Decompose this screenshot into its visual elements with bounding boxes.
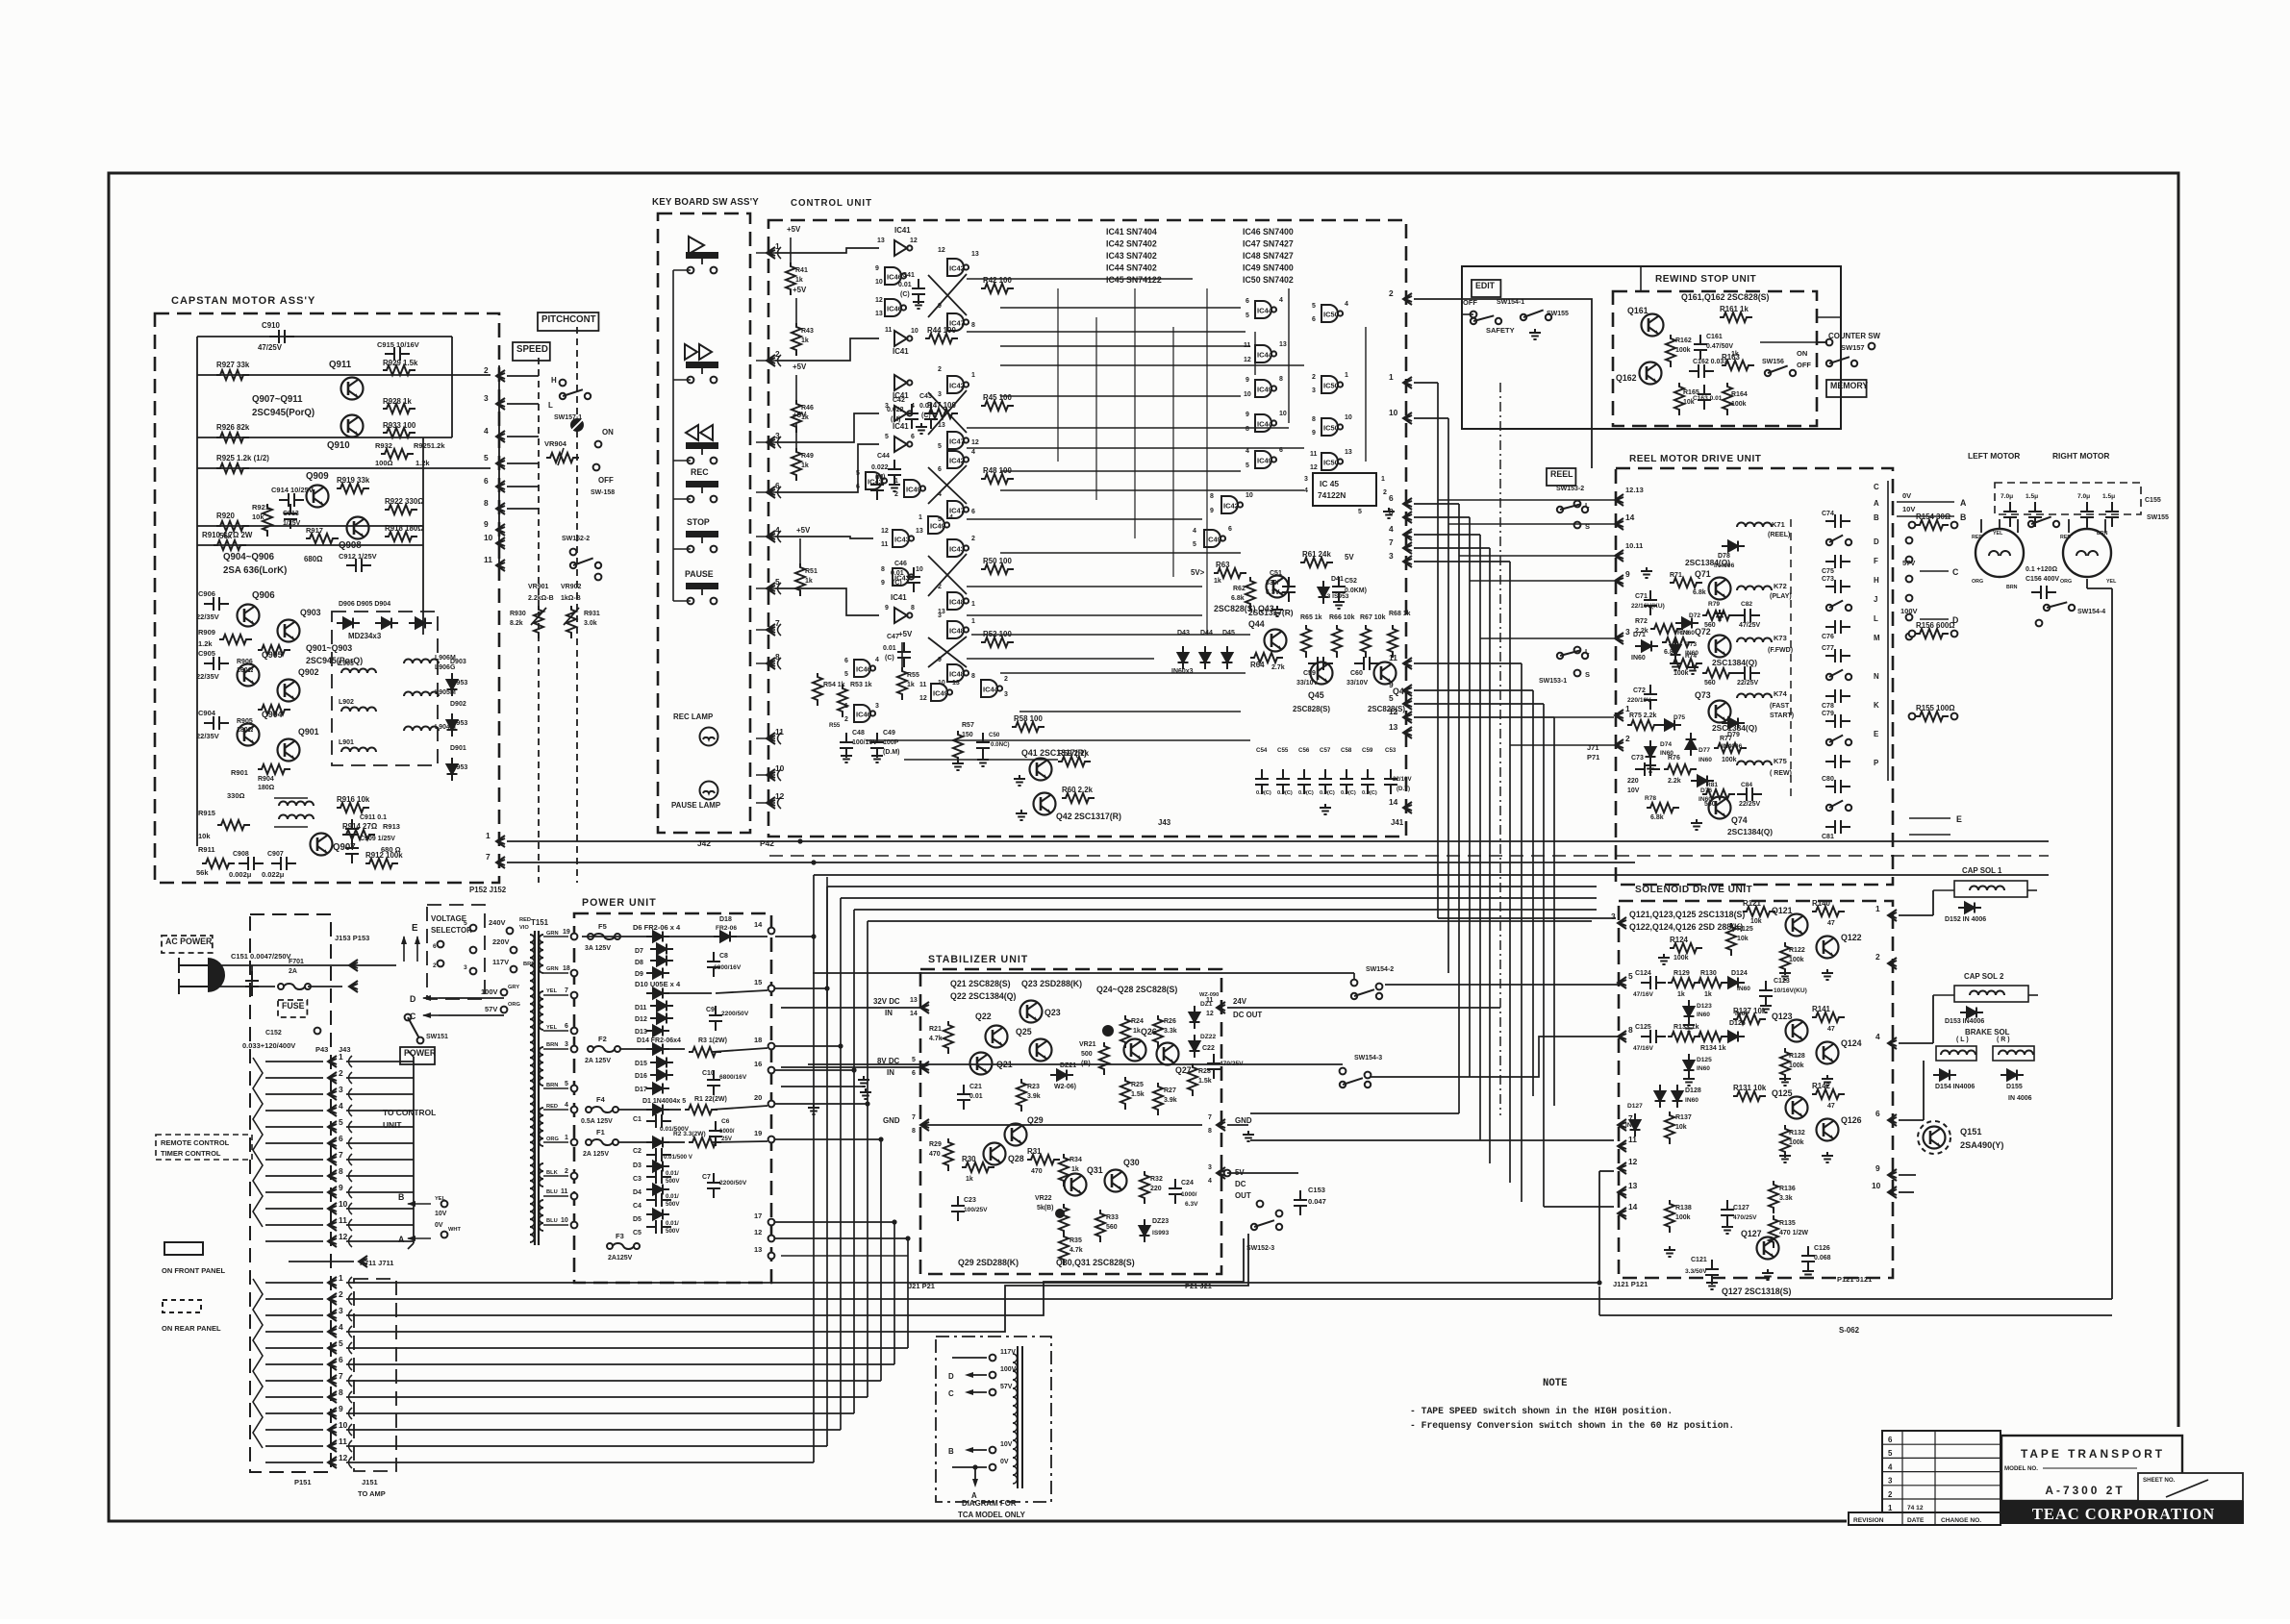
svg-text:MODEL NO.: MODEL NO. bbox=[2004, 1465, 2038, 1472]
transistor Q46 bbox=[1374, 662, 1397, 685]
capacitor C51 bbox=[1282, 577, 1296, 602]
svg-text:T151: T151 bbox=[531, 918, 549, 927]
svg-text:IN60: IN60 bbox=[1699, 757, 1712, 763]
resistor R58 bbox=[1012, 722, 1044, 732]
svg-text:C: C bbox=[948, 1389, 954, 1398]
svg-text:R51: R51 bbox=[805, 568, 818, 575]
svg-text:6.8k: 6.8k bbox=[1650, 814, 1664, 821]
capacitor C909 bbox=[345, 838, 359, 863]
svg-text:2: 2 bbox=[1888, 1490, 1893, 1499]
svg-text:100k: 100k bbox=[1673, 670, 1689, 677]
svg-text:NOTE: NOTE bbox=[1543, 1378, 1567, 1389]
svg-text:R142: R142 bbox=[1812, 1082, 1830, 1090]
svg-text:6: 6 bbox=[433, 943, 437, 950]
svg-text:R140: R140 bbox=[1812, 899, 1830, 908]
svg-text:4: 4 bbox=[1875, 1032, 1880, 1041]
svg-text:R133 1k: R133 1k bbox=[1673, 1024, 1699, 1031]
resistor R79 C82 bbox=[1702, 611, 1735, 620]
svg-text:OUT: OUT bbox=[1235, 1191, 1251, 1200]
capacitor C9 bbox=[709, 1006, 722, 1031]
svg-text:D155: D155 bbox=[2006, 1084, 2023, 1090]
coil L902 bbox=[341, 708, 376, 712]
svg-text:R59 2.2k: R59 2.2k bbox=[1058, 749, 1090, 758]
svg-text:IC50: IC50 bbox=[1323, 311, 1339, 319]
svg-text:IC48: IC48 bbox=[949, 627, 965, 636]
svg-text:P71: P71 bbox=[1587, 753, 1599, 762]
resistor R925 bbox=[216, 463, 249, 473]
svg-text:10.11: 10.11 bbox=[1625, 541, 1643, 550]
svg-text:C50: C50 bbox=[989, 732, 1000, 738]
svg-text:47: 47 bbox=[1827, 1026, 1835, 1033]
reel pins to bundle bbox=[1438, 499, 1614, 501]
svg-text:1.5μ: 1.5μ bbox=[2102, 493, 2115, 500]
svg-text:0.022μ: 0.022μ bbox=[262, 870, 285, 879]
svg-text:C48: C48 bbox=[852, 730, 865, 737]
svg-text:C911 0.1: C911 0.1 bbox=[360, 814, 387, 821]
resistor R122 bbox=[1780, 942, 1790, 975]
svg-text:R55: R55 bbox=[829, 722, 841, 729]
svg-text:5: 5 bbox=[1246, 312, 1249, 319]
svg-text:B: B bbox=[948, 1447, 954, 1456]
svg-text:16: 16 bbox=[754, 1060, 762, 1068]
transistor Q151 bbox=[1918, 1121, 1950, 1154]
resistor R141 bbox=[1812, 1012, 1845, 1022]
transistor Q121 bbox=[1786, 914, 1808, 937]
svg-text:R914 27Ω: R914 27Ω bbox=[342, 822, 377, 831]
svg-text:R76: R76 bbox=[1668, 755, 1680, 762]
svg-text:Q910: Q910 bbox=[327, 440, 350, 451]
wire bbox=[196, 337, 198, 846]
svg-text:19: 19 bbox=[563, 929, 570, 936]
svg-text:C904: C904 bbox=[198, 709, 216, 717]
svg-text:MEMORY: MEMORY bbox=[1830, 381, 1868, 390]
svg-text:0.0NC): 0.0NC) bbox=[991, 741, 1010, 748]
transistor Q41 bbox=[1030, 759, 1052, 781]
stabilizer dashed box bbox=[920, 969, 1221, 1274]
svg-text:SW155: SW155 bbox=[1547, 311, 1569, 317]
svg-text:10: 10 bbox=[561, 1217, 568, 1224]
svg-text:8.2k: 8.2k bbox=[510, 620, 523, 627]
svg-text:D128: D128 bbox=[1685, 1087, 1701, 1094]
svg-text:C44: C44 bbox=[877, 453, 890, 460]
svg-text:VR901: VR901 bbox=[528, 584, 549, 590]
svg-text:8: 8 bbox=[1210, 493, 1214, 500]
diodes D43 D44 D45 bbox=[1178, 646, 1189, 669]
svg-text:Q161: Q161 bbox=[1627, 306, 1648, 315]
svg-text:R21: R21 bbox=[929, 1026, 942, 1033]
svg-text:4: 4 bbox=[875, 657, 879, 663]
svg-text:(C): (C) bbox=[885, 655, 894, 662]
svg-text:IC49: IC49 bbox=[1257, 457, 1272, 465]
svg-text:F2: F2 bbox=[598, 1035, 607, 1043]
svg-text:IN60: IN60 bbox=[1685, 1097, 1699, 1104]
svg-text:Q30: Q30 bbox=[1123, 1158, 1140, 1167]
diode D74 bbox=[1646, 740, 1656, 763]
gate IC46 b bbox=[885, 299, 906, 316]
svg-text:D7: D7 bbox=[635, 948, 643, 955]
svg-text:A: A bbox=[1960, 498, 1967, 508]
svg-text:IC50: IC50 bbox=[1323, 459, 1339, 467]
svg-text:11: 11 bbox=[339, 1215, 347, 1225]
transistor Q901 bbox=[278, 739, 300, 762]
resistor R138 bbox=[1665, 1200, 1674, 1233]
svg-text:330Ω: 330Ω bbox=[227, 791, 245, 800]
svg-text:SPEED: SPEED bbox=[516, 344, 548, 355]
svg-text:RED: RED bbox=[2060, 535, 2071, 540]
svg-text:47: 47 bbox=[1827, 920, 1835, 927]
svg-text:Q44: Q44 bbox=[1248, 619, 1265, 629]
capacitor C8 bbox=[707, 952, 720, 977]
svg-text:100k: 100k bbox=[1789, 1062, 1804, 1069]
svg-text:13: 13 bbox=[910, 997, 918, 1004]
coil L904 bbox=[404, 727, 439, 732]
svg-text:ORG: ORG bbox=[508, 1002, 521, 1008]
svg-text:15: 15 bbox=[754, 978, 762, 987]
svg-text:C59: C59 bbox=[1362, 747, 1373, 754]
svg-text:0.068: 0.068 bbox=[1814, 1255, 1831, 1262]
svg-text:8: 8 bbox=[339, 1166, 343, 1176]
svg-text:4.7k: 4.7k bbox=[929, 1036, 943, 1042]
svg-text:3: 3 bbox=[1304, 476, 1308, 483]
svg-text:D18: D18 bbox=[719, 916, 732, 923]
title block background mask bbox=[1847, 1427, 2251, 1527]
svg-text:Q911: Q911 bbox=[329, 360, 352, 370]
svg-text:SW155: SW155 bbox=[2147, 514, 2169, 521]
switch SW154-4 bbox=[2044, 605, 2050, 611]
svg-text:BRAKE SOL: BRAKE SOL bbox=[1965, 1028, 2010, 1037]
svg-text:2: 2 bbox=[1389, 288, 1394, 298]
svg-text:D17: D17 bbox=[635, 1087, 647, 1093]
svg-text:2SC828(S): 2SC828(S) bbox=[1293, 705, 1330, 713]
svg-text:10V: 10V bbox=[1627, 787, 1640, 794]
transistor Q74 bbox=[1709, 797, 1731, 819]
svg-text:SW154-4: SW154-4 bbox=[2077, 609, 2105, 615]
svg-text:IC46: IC46 bbox=[856, 665, 871, 674]
svg-text:1/25V: 1/25V bbox=[283, 520, 301, 527]
svg-text:3: 3 bbox=[484, 393, 489, 403]
svg-text:C10: C10 bbox=[702, 1070, 715, 1077]
svg-text:7: 7 bbox=[565, 987, 568, 994]
svg-text:SW-158: SW-158 bbox=[591, 489, 615, 496]
resistor R910 bbox=[214, 540, 246, 550]
svg-text:VOLTAGE: VOLTAGE bbox=[431, 914, 466, 923]
svg-text:R129: R129 bbox=[1673, 970, 1690, 977]
svg-text:4: 4 bbox=[971, 449, 975, 456]
svg-text:20: 20 bbox=[754, 1093, 762, 1102]
svg-text:Q23: Q23 bbox=[1044, 1008, 1061, 1017]
svg-text:IC47 SN7427: IC47 SN7427 bbox=[1243, 239, 1294, 249]
svg-text:IS 953: IS 953 bbox=[448, 764, 467, 771]
svg-text:2SC945(PorQ): 2SC945(PorQ) bbox=[252, 408, 315, 418]
svg-text:A: A bbox=[1874, 499, 1879, 508]
resistor R928 bbox=[383, 404, 415, 413]
svg-text:10: 10 bbox=[1279, 411, 1287, 417]
svg-text:13: 13 bbox=[877, 237, 885, 244]
svg-text:0.0(C): 0.0(C) bbox=[1341, 790, 1356, 796]
svg-text:470 1/2W: 470 1/2W bbox=[1779, 1230, 1808, 1237]
svg-text:(D.T): (D.T) bbox=[1397, 786, 1410, 792]
diode D79 bbox=[1722, 718, 1745, 729]
svg-text:1: 1 bbox=[1875, 904, 1880, 913]
svg-text:2: 2 bbox=[938, 366, 942, 373]
capacitor C71 bbox=[1644, 590, 1657, 615]
svg-text:+5V: +5V bbox=[793, 411, 807, 419]
svg-text:3: 3 bbox=[339, 1085, 343, 1094]
svg-text:D5: D5 bbox=[633, 1216, 642, 1223]
svg-text:4: 4 bbox=[484, 426, 489, 436]
svg-text:Q127: Q127 bbox=[1741, 1229, 1762, 1238]
svg-text:BRN: BRN bbox=[546, 1042, 558, 1048]
svg-text:L: L bbox=[1874, 614, 1878, 623]
svg-text:500V: 500V bbox=[666, 1228, 680, 1235]
transistor Q21 bbox=[970, 1053, 993, 1075]
svg-text:1k: 1k bbox=[801, 337, 809, 344]
svg-text:R65 1k: R65 1k bbox=[1300, 614, 1322, 621]
resistor R906 R903 bbox=[258, 645, 290, 655]
svg-text:100V: 100V bbox=[1900, 607, 1918, 615]
svg-text:3.3k: 3.3k bbox=[1164, 1028, 1177, 1035]
unified corner verticals and buses bbox=[813, 875, 815, 1462]
capacitor C915 bbox=[385, 347, 410, 361]
inverter IC41 b bbox=[894, 331, 912, 346]
resistor R132 bbox=[1780, 1125, 1790, 1158]
svg-text:K71: K71 bbox=[1772, 520, 1785, 529]
svg-text:IN60x3: IN60x3 bbox=[1171, 668, 1194, 675]
svg-text:R141: R141 bbox=[1812, 1005, 1830, 1013]
svg-text:100k: 100k bbox=[1675, 347, 1691, 354]
svg-text:100Ω: 100Ω bbox=[375, 459, 393, 467]
transistor Q907 bbox=[311, 834, 333, 856]
svg-text:R122: R122 bbox=[1789, 947, 1805, 954]
svg-text:C55: C55 bbox=[1277, 747, 1289, 754]
svg-text:Q125: Q125 bbox=[1772, 1088, 1793, 1098]
capacitor C73 R76 bbox=[1635, 762, 1660, 776]
resistor R926 bbox=[216, 433, 249, 442]
power dashed box bbox=[574, 913, 771, 1283]
svg-text:C60: C60 bbox=[1350, 670, 1363, 677]
svg-text:IC50: IC50 bbox=[1323, 382, 1339, 390]
svg-text:- Frequensy Conversion switch: - Frequensy Conversion switch shown in t… bbox=[1410, 1420, 1734, 1431]
svg-text:H: H bbox=[551, 376, 557, 385]
capacitor C7 bbox=[707, 1173, 720, 1198]
svg-text:17: 17 bbox=[754, 1212, 762, 1220]
svg-text:5: 5 bbox=[464, 920, 467, 927]
svg-text:C153: C153 bbox=[1308, 1186, 1325, 1194]
svg-text:Q122: Q122 bbox=[1841, 933, 1862, 942]
svg-text:220/10V: 220/10V bbox=[1627, 697, 1651, 704]
transistor Q904 bbox=[238, 724, 260, 746]
svg-text:57V: 57V bbox=[1000, 1384, 1013, 1390]
svg-text:0.0(C): 0.0(C) bbox=[1320, 790, 1335, 796]
svg-text:0.01/: 0.01/ bbox=[666, 1170, 679, 1177]
svg-text:0.01/: 0.01/ bbox=[666, 1193, 679, 1200]
svg-text:Q151: Q151 bbox=[1960, 1127, 1981, 1137]
svg-text:C161: C161 bbox=[1706, 334, 1723, 340]
resistor R140 bbox=[1812, 907, 1845, 916]
svg-text:C9: C9 bbox=[706, 1007, 715, 1013]
svg-text:J153 P153: J153 P153 bbox=[335, 934, 369, 942]
svg-text:10/16V(KU): 10/16V(KU) bbox=[1774, 987, 1807, 994]
svg-text:8: 8 bbox=[1312, 416, 1316, 423]
svg-text:IC46 SN7400: IC46 SN7400 bbox=[1243, 227, 1294, 237]
svg-text:5: 5 bbox=[339, 1117, 343, 1127]
svg-text:7: 7 bbox=[339, 1371, 343, 1381]
winding pin circles bbox=[571, 934, 578, 940]
svg-text:SW154-1: SW154-1 bbox=[1497, 299, 1524, 306]
svg-text:12: 12 bbox=[1628, 1157, 1638, 1166]
svg-text:D901: D901 bbox=[450, 745, 466, 752]
svg-text:K75: K75 bbox=[1774, 757, 1787, 765]
svg-text:2SC1317(R): 2SC1317(R) bbox=[1248, 608, 1294, 617]
capstan pin column bbox=[496, 370, 505, 382]
svg-text:56k: 56k bbox=[196, 868, 209, 877]
transistor Q43 bbox=[1267, 576, 1289, 598]
resistor R156 bbox=[1916, 629, 1949, 638]
svg-text:9: 9 bbox=[339, 1183, 343, 1192]
svg-text:13: 13 bbox=[754, 1245, 762, 1254]
svg-text:3.0k: 3.0k bbox=[584, 620, 597, 627]
svg-text:0.01: 0.01 bbox=[883, 645, 896, 652]
resistor R131 bbox=[1733, 1091, 1766, 1101]
coil L906 bbox=[404, 660, 439, 664]
svg-text:STOP: STOP bbox=[687, 517, 710, 527]
svg-text:0.022: 0.022 bbox=[887, 407, 904, 413]
svg-text:4: 4 bbox=[1208, 1178, 1212, 1185]
svg-text:22/35V: 22/35V bbox=[196, 612, 219, 621]
gnd stab bbox=[923, 1124, 1202, 1126]
capacitor C908 C907 bbox=[239, 857, 264, 870]
svg-text:KEY BOARD SW ASS'Y: KEY BOARD SW ASS'Y bbox=[652, 197, 759, 208]
svg-text:100/25V: 100/25V bbox=[964, 1207, 988, 1213]
svg-text:R30: R30 bbox=[962, 1155, 976, 1163]
transistor Q910 bbox=[341, 415, 364, 437]
svg-text:REMOTE CONTROL: REMOTE CONTROL bbox=[161, 1138, 230, 1147]
svg-text:33/10V: 33/10V bbox=[1346, 680, 1369, 687]
border frame bbox=[109, 173, 2178, 1521]
svg-text:4: 4 bbox=[1193, 528, 1196, 535]
transistor Q27 bbox=[1157, 1043, 1179, 1065]
revision table bbox=[1882, 1431, 2001, 1512]
resistor R916 bbox=[337, 803, 369, 812]
svg-text:A-7300 2T: A-7300 2T bbox=[2045, 1484, 2125, 1497]
svg-text:DZ23: DZ23 bbox=[1152, 1218, 1169, 1225]
svg-text:10V: 10V bbox=[1000, 1441, 1013, 1448]
capacitor C905 bbox=[204, 657, 229, 670]
svg-text:BLU: BLU bbox=[546, 1189, 558, 1195]
svg-text:R913: R913 bbox=[383, 822, 400, 831]
svg-text:R33: R33 bbox=[1106, 1214, 1119, 1221]
svg-text:IC44: IC44 bbox=[983, 686, 999, 694]
resistor R933 bbox=[383, 428, 415, 437]
svg-text:F4: F4 bbox=[596, 1095, 606, 1104]
diode DZ21 bbox=[1050, 1070, 1073, 1081]
tca taps bbox=[990, 1355, 996, 1362]
svg-text:Q162: Q162 bbox=[1616, 373, 1637, 383]
svg-text:C76: C76 bbox=[1822, 634, 1834, 640]
capacitor C910 bbox=[269, 330, 294, 343]
svg-text:1k: 1k bbox=[1677, 991, 1685, 998]
svg-text:1k: 1k bbox=[805, 578, 813, 585]
svg-text:7: 7 bbox=[912, 1114, 916, 1121]
svg-text:D11: D11 bbox=[635, 1005, 647, 1012]
svg-text:Q45: Q45 bbox=[1308, 690, 1324, 700]
svg-text:R34: R34 bbox=[1070, 1157, 1082, 1163]
svg-text:Q31: Q31 bbox=[1087, 1165, 1103, 1175]
svg-text:IC45 SN74122: IC45 SN74122 bbox=[1106, 275, 1162, 285]
svg-text:6: 6 bbox=[1228, 526, 1232, 533]
ac plug bbox=[208, 958, 225, 992]
dash line speed bbox=[538, 358, 540, 883]
svg-text:10: 10 bbox=[484, 533, 493, 542]
svg-text:P: P bbox=[1874, 759, 1878, 767]
svg-text:Q22: Q22 bbox=[975, 1012, 992, 1021]
transistor Q29 bbox=[1005, 1124, 1027, 1146]
svg-text:IS993: IS993 bbox=[1152, 1230, 1170, 1237]
svg-text:R136: R136 bbox=[1779, 1186, 1796, 1192]
svg-text:6: 6 bbox=[844, 658, 848, 664]
svg-text:J41: J41 bbox=[1391, 818, 1404, 827]
svg-text:K73: K73 bbox=[1774, 634, 1787, 642]
right gate column IC44 IC50 bbox=[1255, 301, 1276, 318]
svg-text:5: 5 bbox=[1193, 541, 1196, 548]
svg-text:3.3k: 3.3k bbox=[1779, 1195, 1793, 1202]
svg-text:R906: R906 bbox=[237, 659, 253, 665]
svg-text:+5V: +5V bbox=[898, 630, 913, 638]
svg-text:D45: D45 bbox=[1222, 630, 1235, 637]
svg-text:100k: 100k bbox=[1789, 1139, 1804, 1146]
inner dashed box diodes bbox=[332, 612, 438, 765]
svg-text:REEL: REEL bbox=[1550, 469, 1573, 479]
svg-text:R137: R137 bbox=[1675, 1114, 1692, 1121]
svg-text:11: 11 bbox=[1389, 653, 1397, 662]
svg-text:Q904~Q906: Q904~Q906 bbox=[223, 552, 275, 562]
svg-text:C907: C907 bbox=[267, 851, 284, 858]
svg-text:19: 19 bbox=[754, 1129, 762, 1137]
wire bbox=[1760, 341, 1827, 343]
svg-text:K74: K74 bbox=[1774, 689, 1788, 698]
svg-text:1.5μ: 1.5μ bbox=[2026, 493, 2038, 500]
gate IC43 c bbox=[893, 568, 914, 586]
svg-text:C155: C155 bbox=[2145, 497, 2161, 504]
svg-text:GND: GND bbox=[883, 1116, 900, 1125]
capacitor C46 bbox=[907, 567, 920, 592]
svg-text:2: 2 bbox=[971, 536, 975, 542]
svg-text:R911: R911 bbox=[198, 845, 215, 854]
svg-text:12: 12 bbox=[1310, 464, 1318, 471]
transistor Q42 bbox=[1034, 793, 1056, 815]
svg-text:CHANGE NO.: CHANGE NO. bbox=[1941, 1517, 1981, 1524]
keyboard to control wires bbox=[756, 252, 775, 254]
svg-text:Q902: Q902 bbox=[298, 667, 319, 677]
resistor R47 bbox=[925, 409, 958, 418]
svg-text:9: 9 bbox=[484, 519, 489, 529]
wire to solenoid pin13 14 bbox=[1544, 1206, 1614, 1208]
svg-text:IN: IN bbox=[887, 1068, 894, 1077]
bundle staircase under stabilizer bbox=[346, 1238, 1244, 1315]
svg-text:F1: F1 bbox=[596, 1128, 605, 1137]
svg-text:PAUSE LAMP: PAUSE LAMP bbox=[671, 801, 720, 810]
svg-text:E: E bbox=[1874, 730, 1878, 738]
svg-text:9: 9 bbox=[1625, 569, 1630, 579]
svg-text:Q907: Q907 bbox=[333, 842, 356, 853]
label box FUSE bbox=[278, 1000, 307, 1017]
diode D77 R77 bbox=[1686, 733, 1697, 756]
svg-text:REC LAMP: REC LAMP bbox=[673, 712, 713, 721]
svg-text:W2-06): W2-06) bbox=[1054, 1084, 1076, 1090]
svg-text:2.2kΩ-B: 2.2kΩ-B bbox=[528, 595, 554, 602]
svg-text:47: 47 bbox=[1827, 1103, 1835, 1110]
capacitor C162 bbox=[1689, 364, 1714, 378]
